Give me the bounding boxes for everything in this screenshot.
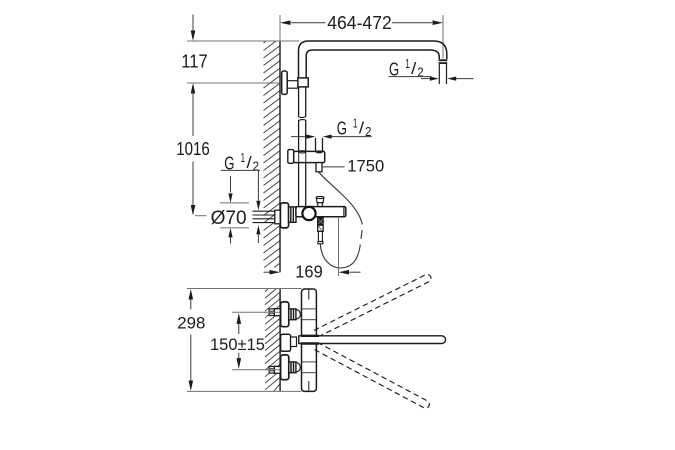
svg-text:464-472: 464-472	[327, 12, 392, 33]
svg-text:117: 117	[181, 51, 208, 72]
svg-text:298: 298	[177, 313, 205, 332]
svg-text:150±15: 150±15	[210, 335, 265, 354]
svg-text:G: G	[337, 118, 347, 139]
svg-text:2: 2	[365, 124, 371, 139]
svg-text:1750: 1750	[347, 157, 384, 176]
svg-text:1: 1	[405, 56, 410, 71]
svg-text:169: 169	[295, 261, 323, 281]
svg-text:1016: 1016	[176, 139, 210, 159]
svg-text:1: 1	[353, 115, 358, 130]
svg-text:Ø70: Ø70	[211, 207, 247, 229]
svg-text:/: /	[359, 118, 364, 137]
svg-text:2: 2	[417, 65, 423, 80]
svg-text:/: /	[247, 153, 252, 172]
svg-text:/: /	[411, 59, 416, 78]
svg-text:1: 1	[241, 150, 246, 165]
